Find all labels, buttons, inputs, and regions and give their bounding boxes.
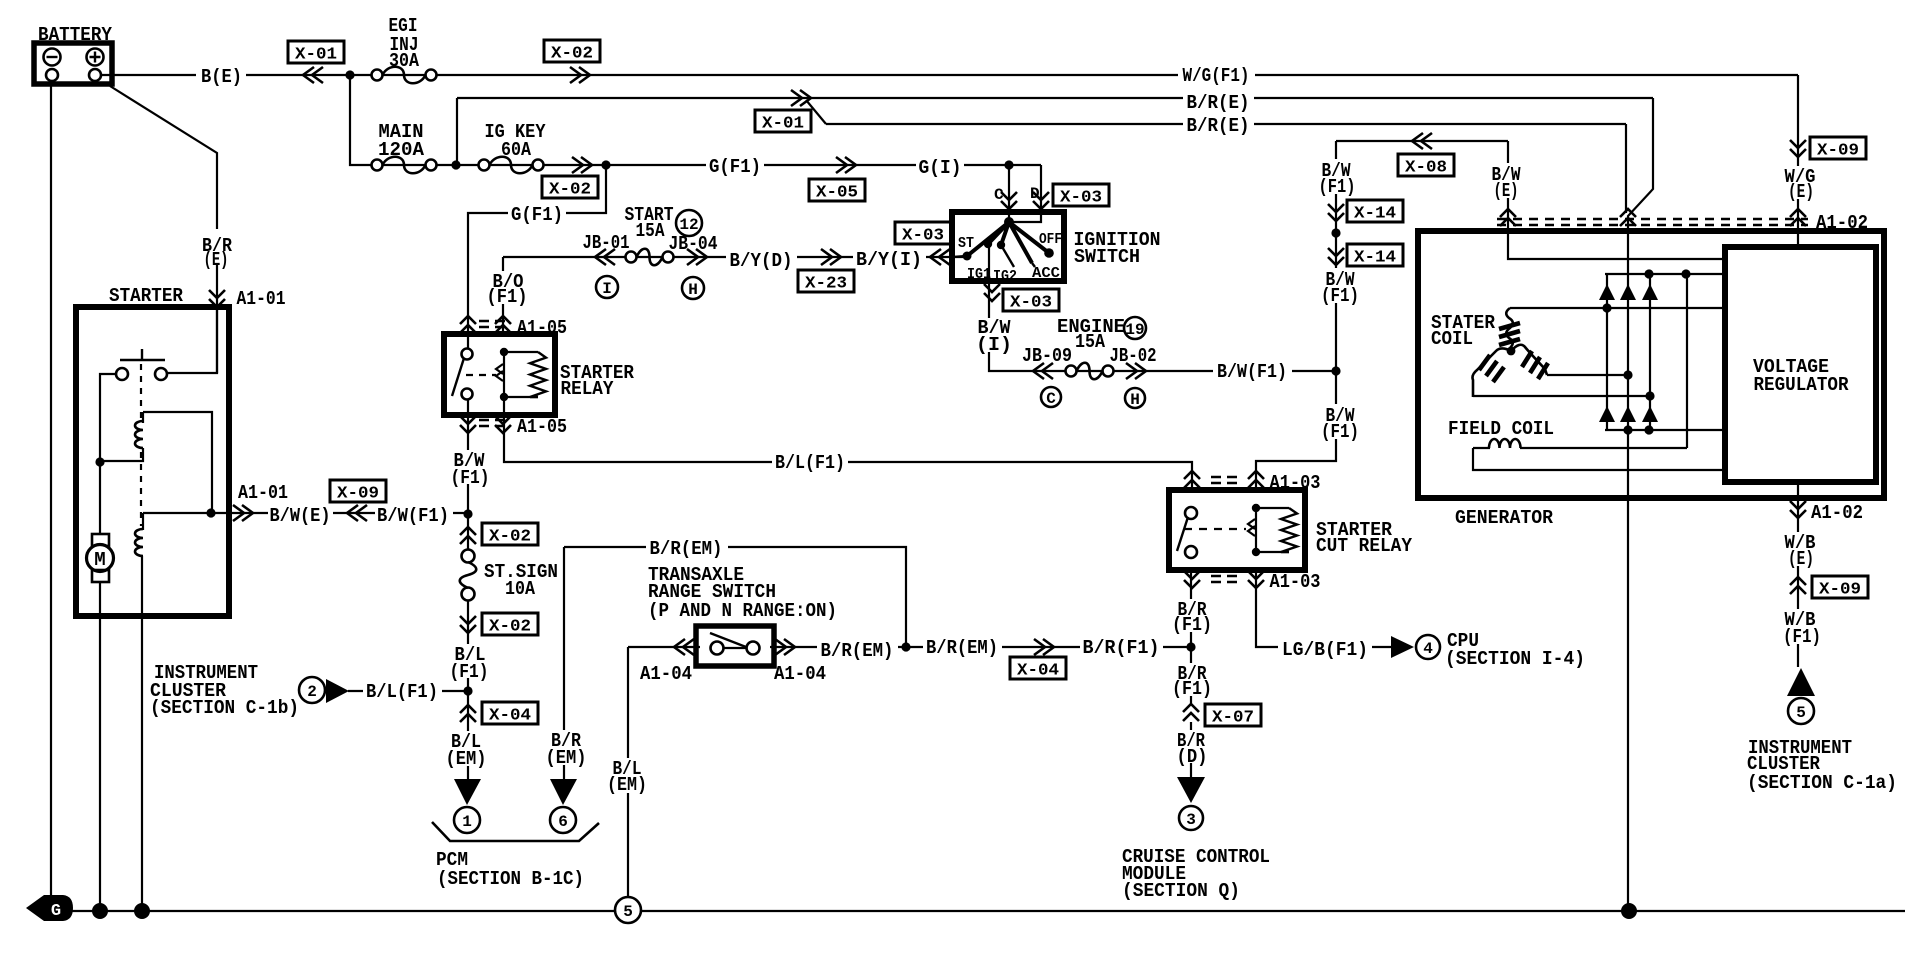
connector X-03 label bottom	[1003, 289, 1059, 311]
connector X-04 chevron row	[1034, 639, 1054, 655]
label B/W (F1) col top	[1316, 159, 1357, 194]
svg-text:B/R(EM): B/R(EM)	[650, 538, 723, 560]
connector A1-05 dashes top	[479, 321, 505, 327]
connector JB-01 chevron	[595, 249, 615, 265]
svg-text:5: 5	[623, 903, 633, 921]
fuse IG KEY 60A	[479, 160, 490, 171]
connector X-09 label bottom right	[1812, 576, 1868, 598]
svg-text:G: G	[51, 902, 61, 921]
transaxle switch contacts	[711, 642, 724, 655]
generator box	[1418, 231, 1884, 498]
circled 5 ground	[615, 897, 641, 923]
ignition switch ST wire into box	[952, 256, 965, 257]
label B/W(F1) engine row	[1213, 361, 1292, 380]
circled 3 cruise control	[1179, 806, 1203, 830]
svg-text:(EM): (EM)	[446, 748, 487, 770]
connector X-01 chevron on B(E) wire	[303, 67, 323, 83]
svg-text:(E): (E)	[1788, 548, 1814, 570]
svg-text:2: 2	[307, 683, 317, 701]
label B/R (EM)	[543, 730, 589, 765]
label B/R (F1) below junction	[1170, 663, 1215, 696]
svg-text:X-02: X-02	[551, 45, 593, 64]
wire B/R(E) lower run	[826, 123, 1626, 125]
svg-text:12: 12	[679, 216, 698, 234]
connector X-14 label lower	[1347, 244, 1403, 266]
svg-text:B/L(F1): B/L(F1)	[366, 681, 438, 703]
connector A1-03 dashes bottom	[1211, 576, 1237, 582]
wire B/R(E) into generator to ground	[1628, 98, 1653, 911]
battery	[34, 43, 112, 84]
connector X-02 label fuse bottom	[482, 613, 538, 635]
svg-text:(SECTION B-1C): (SECTION B-1C)	[437, 868, 584, 890]
svg-text:X-01: X-01	[295, 46, 337, 65]
svg-text:JB-02: JB-02	[1110, 345, 1157, 367]
field coil	[1473, 447, 1490, 449]
svg-text:(E): (E)	[1788, 181, 1814, 203]
connector X-02 chevron on G(F1) wire	[572, 157, 592, 173]
connector A1-02 chevron at B/W(E)	[1500, 209, 1516, 226]
svg-text:A1-05: A1-05	[517, 416, 567, 438]
fuse ST.SIGN 10A	[462, 550, 475, 563]
connector X-03 label left	[895, 222, 951, 244]
arrow to CPU 4	[1391, 636, 1414, 658]
ground junction starter motor	[92, 903, 108, 919]
wire ignition switch D feed	[1011, 165, 1041, 222]
label B/O (F1)	[485, 271, 531, 304]
starter relay contact	[462, 349, 473, 360]
label W/B (E)	[1780, 532, 1821, 566]
connector X-09 chevron output row	[347, 505, 367, 521]
svg-text:B/W(F1): B/W(F1)	[377, 505, 449, 527]
rectifier ground rail	[1605, 429, 1722, 431]
connector A1-01 chevron top	[209, 290, 225, 307]
label LG/B(F1)	[1278, 638, 1372, 657]
svg-text:(E): (E)	[204, 249, 229, 271]
svg-text:X-09: X-09	[337, 485, 379, 504]
connector X-03 chevron left	[930, 249, 950, 265]
ST contact dot	[963, 252, 972, 261]
connector A1-03 chevron top left	[1184, 471, 1200, 488]
ignition switch box	[952, 212, 1064, 281]
label B/L(F1) run	[772, 451, 848, 470]
starter motor feed wire	[100, 374, 116, 535]
circled 5 instrument cluster	[1788, 698, 1814, 724]
connector X-05 label	[809, 179, 865, 201]
svg-text:X-14: X-14	[1354, 249, 1396, 268]
svg-text:(F1): (F1)	[451, 467, 490, 489]
connector X-14 chevron lower	[1328, 248, 1344, 265]
connector X-08 label	[1398, 154, 1454, 176]
wire X-08 link	[1336, 140, 1508, 142]
label B/W (F1) relay leg	[447, 450, 492, 484]
wire B/L(EM) vertical to ground 5	[627, 647, 629, 897]
joint connector I	[596, 276, 618, 298]
connector X-03 chevron terminal C	[1001, 192, 1017, 209]
diode bottom row 1	[1599, 406, 1615, 422]
label B/W(F1)	[375, 504, 453, 523]
label B/Y(I)	[853, 248, 926, 267]
connector X-02 chevron fuse top	[460, 527, 476, 544]
wire G(F1) branch down-left to starter relay	[468, 165, 606, 348]
rectifier diode column 3	[1649, 274, 1651, 430]
stator phase C tap	[1473, 395, 1650, 397]
starter output wire	[143, 512, 229, 514]
label B/R(EM) top	[646, 537, 728, 556]
svg-text:5: 5	[1796, 704, 1806, 722]
connector X-04 label row	[1010, 657, 1066, 679]
svg-text:30A: 30A	[389, 50, 420, 72]
diode bottom row 2	[1620, 406, 1636, 422]
ignition switch wiper pivot	[1004, 217, 1014, 227]
svg-text:X-04: X-04	[489, 707, 531, 726]
junction G(F1) branch	[601, 160, 610, 169]
diode top row 2	[1620, 284, 1636, 300]
svg-text:COIL: COIL	[1431, 328, 1473, 350]
wire starter output row B/W(E)	[229, 512, 468, 514]
svg-text:(SECTION I-4): (SECTION I-4)	[1445, 648, 1585, 670]
starter box	[76, 307, 229, 616]
label A1-02 top	[1813, 212, 1873, 230]
connector X-03 label top	[1053, 184, 1109, 206]
wire between contacts	[724, 647, 746, 649]
svg-text:C: C	[1046, 390, 1056, 408]
svg-text:A1-03: A1-03	[1270, 571, 1321, 593]
svg-text:LG/B(F1): LG/B(F1)	[1282, 639, 1368, 661]
svg-text:B/L(F1): B/L(F1)	[775, 452, 845, 474]
svg-text:B/R(E): B/R(E)	[1187, 115, 1250, 137]
svg-text:H: H	[1130, 391, 1140, 409]
connector X-02 label fuse top	[482, 523, 538, 545]
svg-text:(SECTION C-1b): (SECTION C-1b)	[150, 697, 299, 719]
svg-text:I: I	[602, 280, 612, 298]
arrow from instrument cluster	[326, 679, 349, 703]
label B/R(EM) after junction	[923, 636, 1002, 655]
junction starter output	[206, 508, 215, 517]
svg-text:JB-04: JB-04	[669, 233, 718, 255]
svg-text:6: 6	[558, 813, 568, 831]
label B/R(EM) right of switch	[817, 639, 898, 658]
connector A1-03 dashes top	[1211, 477, 1237, 483]
svg-text:(P AND N RANGE:ON): (P AND N RANGE:ON)	[648, 600, 837, 622]
svg-text:A1-01: A1-01	[237, 288, 286, 310]
svg-text:(F1): (F1)	[1172, 678, 1212, 700]
starter solenoid contact feed	[168, 307, 217, 373]
starter motor M	[92, 534, 109, 546]
label B/R(E) upper	[1183, 90, 1254, 109]
svg-text:(F1): (F1)	[487, 286, 528, 308]
connector A1-05 chevron bottom right	[495, 416, 511, 433]
label W/G (E)	[1780, 166, 1821, 199]
connector X-01 label top	[288, 41, 344, 63]
connector A1-04 chevron left	[674, 639, 694, 655]
circled 1 PCM	[454, 807, 480, 833]
junction starter winding	[95, 457, 104, 466]
svg-text:(F1): (F1)	[450, 661, 489, 683]
svg-text:4: 4	[1423, 640, 1433, 658]
wire MAIN fuse branch vertical	[350, 75, 1041, 165]
connector X-23 chevron	[821, 249, 841, 265]
connector X-04 label	[482, 702, 538, 724]
svg-text:(E): (E)	[1494, 180, 1519, 202]
circuit number 19	[1124, 317, 1146, 339]
label B/W (E)	[1486, 163, 1527, 198]
wire ignition switch B/W(I) output to ENGINE fuse	[989, 246, 1335, 371]
svg-text:M: M	[94, 549, 105, 571]
joint connector H	[1125, 388, 1145, 408]
wire LG/B(F1) from starter cut relay to CPU	[1256, 570, 1391, 647]
svg-text:B(E): B(E)	[201, 66, 242, 88]
label B/W (F1) col low	[1318, 404, 1361, 439]
svg-text:(EM): (EM)	[607, 774, 647, 796]
OFF contact dot	[1044, 248, 1054, 258]
joint connector H	[682, 277, 704, 299]
connector A1-05 dashes bottom	[479, 420, 505, 426]
starter cut relay coil	[1252, 504, 1260, 512]
wire ignition switch C feed	[1008, 165, 1010, 221]
label G(I)	[916, 156, 964, 175]
connector X-09 chevron top right	[1790, 140, 1806, 157]
wire transaxle switch row	[628, 646, 700, 648]
ground symbol G	[26, 895, 73, 921]
svg-text:X-01: X-01	[762, 115, 804, 134]
connector A1-02 chevron at W/G(E)	[1790, 209, 1806, 226]
starter cut relay contact	[1185, 507, 1197, 519]
connector A1-03 chevron top right	[1248, 471, 1264, 488]
connector X-02 chevron on W/G(F1) wire	[570, 67, 590, 83]
stator coil wye winding	[1506, 308, 1513, 348]
connector JB-02 chevron	[1126, 363, 1146, 379]
svg-text:(F1): (F1)	[1321, 421, 1359, 443]
svg-text:GENERATOR: GENERATOR	[1455, 507, 1554, 529]
svg-text:(F1): (F1)	[1319, 176, 1356, 198]
wire W/B(E) from voltage regulator to instrument cluster arrow	[1797, 482, 1799, 667]
wire cruise control column	[1190, 570, 1192, 705]
circled 2 instrument cluster	[299, 677, 325, 703]
stator left arm winding	[1473, 349, 1512, 398]
svg-text:JB-01: JB-01	[583, 232, 630, 254]
svg-text:X-03: X-03	[1060, 189, 1102, 208]
connector A1-05 chevron top right	[495, 316, 511, 333]
connector X-03 chevron bottom	[984, 284, 1000, 301]
junction B(E)/MAIN	[345, 70, 354, 79]
junction B/W(F1)	[1331, 366, 1340, 375]
fuse START 15A	[626, 252, 637, 263]
connector A1-01 chevron output	[233, 505, 253, 521]
wire START fuse row B/Y	[502, 257, 504, 334]
svg-text:X-08: X-08	[1405, 159, 1447, 178]
svg-text:STARTER: STARTER	[109, 285, 184, 307]
starter cut relay actuating link	[1184, 528, 1246, 530]
circuit number 12	[676, 210, 702, 236]
svg-text:RELAY: RELAY	[561, 378, 615, 400]
circled 6 PCM	[550, 807, 576, 833]
svg-text:(I): (I)	[976, 334, 1012, 356]
starter solenoid contacts	[155, 368, 167, 380]
label B/L(F1) stub	[363, 680, 442, 699]
svg-text:X-02: X-02	[549, 181, 591, 200]
connector X-07 chevron	[1183, 704, 1199, 721]
svg-text:(SECTION Q): (SECTION Q)	[1122, 880, 1240, 902]
wire W/G(E) to voltage regulator	[1797, 75, 1799, 247]
connector X-07 label	[1205, 704, 1261, 726]
connector JB-04 chevron	[687, 249, 707, 265]
svg-text:B/W(F1): B/W(F1)	[1217, 361, 1287, 383]
svg-text:REGULATOR: REGULATOR	[1754, 374, 1850, 396]
connector X-14 label upper	[1347, 200, 1403, 222]
connector X-03 chevron terminal D	[1033, 192, 1049, 209]
svg-text:IG2: IG2	[993, 268, 1017, 285]
svg-text:(EM): (EM)	[546, 747, 587, 769]
svg-text:(D): (D)	[1177, 746, 1208, 768]
svg-text:A1-01: A1-01	[238, 482, 288, 504]
starter relay box	[444, 334, 555, 415]
svg-text:SWITCH: SWITCH	[1074, 246, 1140, 268]
fuse ENGINE 15A	[1066, 366, 1077, 377]
stator right arm winding	[1511, 345, 1547, 375]
starter hold-in winding	[142, 513, 144, 530]
connector A1-03 chevron bottom right	[1248, 571, 1264, 588]
label B/R (D)	[1170, 730, 1213, 763]
svg-text:B/Y(I): B/Y(I)	[856, 249, 922, 271]
joint connector C	[1041, 387, 1061, 407]
svg-text:ST: ST	[958, 235, 974, 252]
svg-text:3: 3	[1186, 811, 1196, 829]
starter relay actuating link	[466, 374, 496, 376]
label B/L (F1)	[448, 644, 492, 678]
fuse MAIN 120A	[372, 160, 383, 171]
battery minus vertical wire to ground	[50, 82, 52, 897]
label B/R (F1) above junction	[1170, 599, 1215, 632]
wire W/G(F1) top run	[350, 74, 1798, 76]
label B/R(F1) row	[1080, 636, 1163, 655]
IG1 contact dot	[984, 240, 992, 248]
wire starter relay right leg B/L(F1) run	[504, 397, 1192, 490]
connector X-02 chevron fuse bottom	[460, 616, 476, 633]
svg-text:X-09: X-09	[1819, 581, 1861, 600]
X-01 diagonal jog	[806, 100, 826, 124]
svg-text:B/R(E): B/R(E)	[1187, 92, 1250, 114]
junction G(I) at ignition switch	[1004, 160, 1013, 169]
transaxle range switch box	[696, 626, 774, 666]
starter relay coil	[500, 348, 508, 356]
PCM bracket	[432, 822, 599, 841]
svg-text:X-02: X-02	[489, 618, 531, 637]
svg-text:X-23: X-23	[805, 275, 847, 294]
label W/G(F1)	[1178, 65, 1255, 83]
connector A1-05 chevron top left	[460, 316, 476, 333]
svg-text:X-03: X-03	[1010, 294, 1052, 313]
svg-text:B/Y(D): B/Y(D)	[730, 250, 793, 272]
diode bottom row 3	[1642, 406, 1658, 422]
svg-text:JB-09: JB-09	[1022, 345, 1072, 367]
label W/B (F1)	[1778, 609, 1822, 644]
label B/Y(D)	[726, 249, 797, 268]
diode top row 1	[1599, 284, 1615, 300]
junction MAIN/IG KEY	[451, 160, 460, 169]
voltage regulator box	[1725, 247, 1876, 482]
connector A1-02 chevron bottom	[1790, 501, 1806, 518]
field coil return to regulator	[1473, 448, 1722, 470]
svg-text:X-07: X-07	[1212, 709, 1254, 728]
field supply column	[1686, 274, 1688, 448]
svg-text:10A: 10A	[505, 578, 536, 600]
svg-text:X-02: X-02	[489, 528, 531, 547]
starter winding loop wire	[143, 412, 212, 513]
IG2 contact dot	[997, 241, 1005, 249]
stator wye center	[1507, 347, 1516, 356]
svg-text:ACC: ACC	[1032, 265, 1060, 282]
label B/R (E)	[196, 229, 238, 264]
label B/W (F1) col mid	[1318, 268, 1361, 303]
starter motor ground wire	[99, 582, 101, 911]
connector A1-02 dashed line	[1497, 219, 1808, 225]
svg-text:G(I): G(I)	[919, 157, 962, 179]
junction B/W(F1) at fuse column	[463, 509, 472, 518]
label B/L (EM) right	[604, 758, 652, 793]
svg-text:X-14: X-14	[1354, 205, 1396, 224]
wire B/W(E) to generator	[1508, 141, 1722, 259]
circled 4 CPU	[1416, 635, 1440, 659]
wire instrument cluster B/L(F1) stub	[348, 690, 468, 692]
svg-text:H: H	[688, 281, 698, 299]
arrow to PCM 6	[550, 779, 577, 805]
svg-text:OFF: OFF	[1039, 231, 1062, 248]
connector X-02 label top	[544, 40, 600, 62]
label G(F1) branch	[508, 203, 566, 222]
connector A1-05 chevron bottom left	[460, 416, 476, 433]
svg-text:(F1): (F1)	[1321, 285, 1359, 307]
svg-text:B/R(EM): B/R(EM)	[821, 640, 894, 662]
junction between X-14	[1331, 228, 1340, 237]
connector X-01 chevron on B/R(E) wire	[791, 90, 811, 106]
ground junction generator	[1621, 903, 1637, 919]
rectifier B+ rail	[1605, 273, 1722, 275]
connector X-05 chevron	[836, 157, 856, 173]
svg-text:X-04: X-04	[1017, 662, 1059, 681]
stator phase B tap	[1547, 374, 1628, 376]
wire B(E) battery to X-01 junction	[100, 74, 350, 76]
ignition switch wiper arms	[967, 222, 1049, 263]
label B/W(I)	[974, 318, 1014, 352]
arrow to PCM 1	[454, 779, 481, 805]
connector JB-09 chevron	[1033, 363, 1053, 379]
connector X-09 label output row	[330, 480, 386, 502]
connector X-02 label lower	[542, 176, 598, 198]
starter pull-in winding	[142, 412, 144, 423]
svg-text:G(F1): G(F1)	[511, 204, 563, 226]
wire starter relay left leg	[467, 400, 469, 514]
connector X-04 chevron	[460, 705, 476, 722]
label B/R(E) lower	[1183, 113, 1254, 132]
junction B/L(F1)	[463, 686, 472, 695]
rectifier diode column 1	[1606, 274, 1608, 430]
label B(E)	[196, 64, 246, 84]
svg-text:A1-04: A1-04	[640, 663, 692, 685]
svg-text:A1-02: A1-02	[1811, 502, 1863, 524]
ground bus line	[70, 910, 1905, 912]
label B/W(E)	[268, 504, 333, 523]
stator phase A line to regulator	[1510, 307, 1722, 309]
svg-text:FIELD COIL: FIELD COIL	[1448, 418, 1554, 440]
svg-text:60A: 60A	[501, 139, 532, 161]
svg-text:A1-04: A1-04	[774, 663, 826, 685]
svg-text:(F1): (F1)	[1172, 614, 1212, 636]
svg-text:X-03: X-03	[902, 227, 944, 246]
fuse EGI INJ 30A	[372, 70, 383, 81]
wire B/R(EM) up-and-over run	[564, 547, 906, 647]
svg-text:(F1): (F1)	[1783, 626, 1821, 648]
svg-text:G(F1): G(F1)	[709, 156, 761, 178]
